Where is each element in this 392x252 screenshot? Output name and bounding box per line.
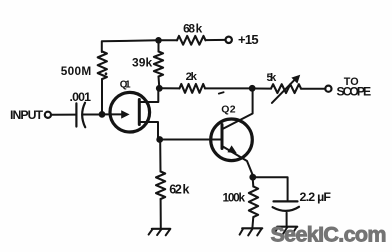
transistor Q1 drain lead: [139, 90, 158, 102]
svg-text:Q2: Q2: [221, 103, 235, 115]
resistor R1 500M: [98, 52, 107, 80]
transistor Q1 channel bar: [138, 100, 141, 125]
wire 2.2uF bottom lead: [286, 213, 288, 226]
wire 39k bottom lead to node A: [158, 77, 161, 87]
wire Q1 source node to Q2 base: [162, 139, 223, 141]
transistor Q1 circle: [110, 92, 150, 132]
transistor Q1 gate arrowhead: [121, 110, 129, 118]
svg-text:SeekIC.com: SeekIC.com: [271, 222, 387, 246]
transistor Q2 base bar: [221, 125, 224, 149]
svg-text:2k: 2k: [186, 71, 198, 83]
wire node B to 5k: [255, 88, 272, 90]
wire 68k to +15 terminal: [206, 39, 226, 41]
svg-text:SCOPE: SCOPE: [337, 84, 372, 98]
svg-text:5k: 5k: [267, 72, 278, 84]
resistor R3 39k: [154, 52, 163, 77]
ground under 2.2uF: [277, 226, 297, 228]
ink speck: [105, 72, 108, 75]
wire node A to 2k: [161, 87, 180, 89]
svg-text:39k: 39k: [132, 56, 153, 70]
potentiometer R5 arrowhead: [291, 75, 300, 84]
wire 62k bottom lead: [160, 199, 162, 228]
wire node C to 2.2uF capacitor: [256, 177, 288, 200]
node top rail junction dot: [155, 37, 162, 44]
wire capacitor to gate node: [83, 114, 99, 116]
ground under 100k: [242, 227, 262, 229]
svg-text:.001: .001: [70, 90, 92, 104]
potentiometer R5 arrow shaft: [272, 79, 295, 103]
wire 2k to node B: [205, 87, 250, 89]
transistor Q2 circle: [211, 119, 253, 161]
wire 100k bottom lead: [251, 217, 254, 228]
svg-text:2.2 µF: 2.2 µF: [300, 190, 332, 204]
node C junction dot: [249, 174, 256, 181]
resistor R2 68k: [177, 36, 206, 45]
capacitor C1 .001 right curved plate: [82, 103, 85, 127]
svg-text:68 k: 68 k: [183, 22, 202, 36]
transistor Q1 source lead: [139, 122, 158, 139]
transistor Q2 emitter arrowhead: [227, 145, 236, 153]
svg-text:100k: 100k: [223, 190, 246, 204]
stray tick mark on wire: [219, 92, 224, 93]
wire 5k to scope terminal: [301, 88, 325, 90]
wire rail dot to 68k: [159, 39, 178, 41]
wire node B down to Q2 collector: [223, 91, 253, 130]
wire input terminal to capacitor: [51, 114, 75, 116]
node A junction dot: [156, 85, 163, 92]
transistor Q2 emitter lead: [222, 146, 253, 176]
resistor R6 62k: [156, 172, 165, 200]
svg-text:62 k: 62 k: [169, 183, 189, 197]
terminal TO SCOPE circle: [325, 86, 331, 92]
capacitor C2 2.2uF bottom curved plate: [273, 207, 299, 211]
svg-text:INPUT: INPUT: [10, 108, 43, 122]
wire top rail with 500M top lead: [102, 40, 158, 52]
wire 62k top lead: [159, 142, 161, 172]
node gate junction dot: [99, 111, 106, 118]
terminal +15 circle: [226, 37, 232, 43]
node Q1 source junction dot: [156, 136, 163, 143]
capacitor C1 .001 left plate: [75, 103, 77, 126]
transistor Q1 gate lead: [104, 113, 122, 115]
svg-text:Q1: Q1: [120, 79, 131, 90]
resistor R4 2k: [180, 84, 206, 93]
node B junction dot: [249, 85, 256, 92]
capacitor C2 2.2uF top plate: [274, 200, 298, 202]
terminal INPUT circle: [45, 112, 51, 118]
wire node C to 100k: [252, 180, 255, 187]
wire 500M bottom lead to gate node: [101, 79, 103, 112]
svg-text:500M: 500M: [61, 64, 92, 78]
potentiometer R5 5k body: [271, 84, 301, 93]
svg-text:+15: +15: [238, 32, 259, 47]
wire 39k top lead: [158, 42, 160, 52]
ground under 62k: [152, 228, 170, 230]
resistor R7 100k: [249, 187, 258, 218]
